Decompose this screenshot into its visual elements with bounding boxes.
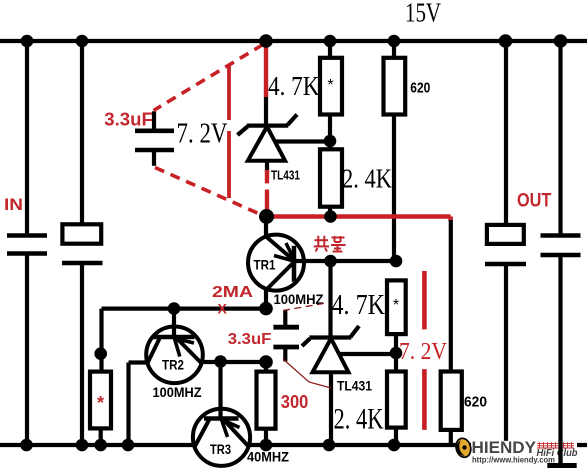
svg-text:OUT: OUT [517, 189, 551, 211]
svg-text:http://www.hiendy.com: http://www.hiendy.com [472, 455, 555, 464]
junction top rail C-in [21, 35, 34, 48]
junction bottom rail R7 [388, 439, 401, 452]
svg-text:15V: 15V [405, 0, 441, 28]
svg-text:TL431: TL431 [337, 378, 372, 394]
label R3 620 [410, 81, 430, 97]
wire top 15V rail [0, 39, 587, 43]
svg-text:*: * [97, 393, 104, 413]
label R4 4.7K [332, 289, 386, 321]
svg-text:100MHZ: 100MHZ [274, 292, 324, 307]
resistor R* left box [90, 372, 111, 429]
capacitor 3.3uF C6 top stub [283, 310, 287, 327]
wire TR1 base to R4 junction [294, 259, 396, 263]
junction top rail R1 [324, 35, 337, 48]
wire input cap C-in left vertical top [25, 41, 29, 234]
capacitor 3.3uF C6 bottom stub [283, 347, 287, 362]
red dashed vertical line 7.2V marker bottom [422, 271, 427, 430]
wire base node down to U2 TL431 [328, 261, 332, 336]
resistor R7 2.4K box [387, 372, 406, 428]
svg-text:X: X [218, 301, 228, 317]
label 15V [405, 0, 441, 28]
red dashed triangle edge bottom [155, 168, 263, 216]
junction bottom rail R5 [260, 439, 273, 452]
logo url text [472, 455, 555, 464]
junction top rail R3 [388, 35, 401, 48]
transistor TR2 internals [148, 309, 202, 364]
node dot U2 ref junction [390, 347, 403, 360]
resistor R6 620 box [441, 372, 462, 430]
resistor R4 4.7K box [387, 280, 406, 334]
zener TL431 U1 cathode lead black [264, 95, 268, 126]
label R1 4.7K [268, 71, 320, 101]
label IN [4, 195, 23, 214]
capacitor C4 plates [541, 236, 581, 256]
label TR2 [162, 357, 184, 373]
junction bottom rail R* [94, 439, 107, 452]
wire U2 anode to ground [329, 372, 333, 445]
junction bottom rail U2 anode [323, 439, 336, 452]
wire input cap C-in left vertical bottom [25, 254, 29, 446]
label TR3 40MHZ [247, 449, 289, 465]
label 共基 red (drawn strokes) [314, 236, 346, 252]
svg-text:620: 620 [410, 81, 430, 97]
node dot 2MA wire TR1 emitter [259, 302, 273, 316]
node dot reference node [259, 209, 274, 224]
transistor TR3 circle [193, 409, 250, 466]
label 3.3uF C6 red [228, 331, 272, 348]
label U2 TL431 [337, 378, 372, 394]
resistor R1 4.7K box [320, 58, 342, 115]
red wire reference node horizontal [266, 217, 451, 222]
red overlay U1 cathode [264, 44, 268, 97]
wire polarized cap C2 vertical top [80, 41, 84, 226]
label TR3 [210, 441, 231, 457]
svg-text:7. 2V: 7. 2V [177, 119, 228, 150]
svg-text:300: 300 [281, 392, 309, 412]
label 7.2V black [177, 119, 228, 150]
transistor TR3 internals [195, 362, 249, 447]
node dot base wire at 330 [324, 255, 337, 268]
label TR1 100MHZ [274, 292, 324, 307]
red overlay U1 anode [265, 170, 269, 217]
wire from red wire down to R6 620 [449, 220, 453, 372]
capacitor 3.3uF C5 bottom stub [152, 150, 156, 166]
capacitor C-in plates [7, 236, 47, 254]
label R5 300 red [281, 392, 309, 412]
wire R3 top lead [392, 41, 396, 59]
capacitor 3.3uF C5 plates [135, 131, 174, 150]
node dot TR2-TR3 [214, 355, 227, 368]
wire R3 bottom lead down to base node [392, 113, 396, 261]
label OUT [517, 189, 551, 211]
label red X over wire [218, 301, 228, 317]
wire R* bottom lead [99, 428, 103, 445]
label U1 TL431 [271, 168, 300, 183]
svg-text:HIENDY: HIENDY [472, 439, 537, 457]
node dot 2MA wire TR2 [168, 302, 181, 315]
junction bottom rail C2 [76, 439, 89, 452]
svg-text:3.3uF: 3.3uF [104, 108, 153, 129]
label TR1 [254, 257, 276, 273]
label R6 620 [464, 394, 487, 411]
wire R1 to R2 [328, 113, 332, 149]
label R2 2.4K [342, 164, 392, 194]
wire polarized cap C2 vertical bottom [80, 263, 84, 445]
svg-text:2MA: 2MA [212, 284, 254, 301]
svg-text:TL431: TL431 [271, 168, 300, 183]
logo HiFi Club text [537, 447, 579, 459]
wire R7 bottom lead [394, 428, 398, 445]
capacitor 3.3uF C6 plates [273, 327, 299, 347]
label 2MA red [212, 284, 254, 301]
junction bottom rail TR2 emitter [122, 439, 135, 452]
junction top rail C3 [499, 34, 513, 48]
red dashed triangle edge top [154, 45, 264, 111]
label R4 asterisk [393, 297, 399, 314]
logo red chinese squiggle [537, 442, 574, 448]
node dot TR2-R5 [259, 355, 273, 369]
svg-text:TR3: TR3 [210, 441, 231, 457]
logo HIENDY text [472, 439, 537, 457]
wire U1 ref to R1-R2 junction [274, 139, 330, 143]
svg-text:7. 2V: 7. 2V [399, 339, 448, 365]
node dot R* top [94, 347, 107, 360]
transistor TR1 circle [248, 235, 304, 291]
red dashed vertical line 7.2V marker top [227, 66, 231, 198]
wire R1 top lead [328, 41, 332, 59]
capacitor 3.3uF C5 top stub [152, 111, 156, 130]
junction top rail C4 [554, 34, 568, 48]
node dot R2 to red wire [324, 210, 337, 223]
capacitor C3 lower plate [485, 262, 526, 266]
wire output cap C3 vertical top [504, 41, 508, 226]
capacitor C2 lower plate [62, 261, 103, 265]
svg-text:*: * [393, 297, 399, 314]
label TR2 100MHZ [153, 384, 202, 400]
junction top rail U1 cathode [259, 34, 273, 48]
label 3.3uF C5 [104, 108, 153, 129]
wire output cap C4 vertical top [558, 41, 562, 234]
wire output cap C4 vertical bottom with end bar [547, 255, 576, 466]
logo gold ellipse [454, 437, 473, 459]
transistor TR1 internals [266, 218, 294, 309]
svg-text:4. 7K: 4. 7K [332, 289, 386, 321]
wire R6 bottom lead [449, 430, 453, 445]
wire TR2 emitter left with corner down [129, 363, 149, 446]
wire TR2 collector down to R5 300 [264, 362, 268, 372]
wire R2 bottom lead [328, 207, 332, 217]
svg-text:3.3uF: 3.3uF [228, 331, 272, 348]
resistor R5 300 box [257, 372, 276, 429]
svg-text:IN: IN [4, 195, 23, 214]
wire TR2 collector right [201, 360, 266, 364]
svg-text:*: * [327, 77, 333, 94]
wire 2MA left corner down to R* [99, 309, 103, 372]
red thin annotation near U2 [283, 359, 331, 388]
logo white backing [471, 441, 577, 456]
label 7.2V red [399, 339, 448, 365]
capacitor C3 polarized box plate [487, 225, 524, 244]
node dot U1 ref junction [324, 135, 337, 148]
wire output cap C3 vertical bottom [504, 264, 508, 445]
label R7 2.4K [334, 404, 384, 436]
label R* asterisk red [97, 393, 104, 413]
wire 2MA node horizontal [102, 307, 267, 311]
zener TL431 U1 cathode bar with tails [238, 115, 298, 136]
zener TL431 U2 cathode bar with tails [302, 326, 359, 346]
node dot base wire at 396 [390, 255, 403, 268]
resistor R3 620 box [384, 58, 406, 115]
svg-text:100MHZ: 100MHZ [153, 384, 202, 400]
svg-text:2. 4K: 2. 4K [334, 404, 384, 436]
zener TL431 U2 triangle [313, 339, 349, 373]
svg-text:4. 7K: 4. 7K [268, 71, 320, 101]
red thin annotation near C6 top [283, 303, 329, 311]
capacitor C2 polarized box plate [62, 224, 101, 243]
junction top rail C2 [76, 35, 89, 48]
wire output cap C4 vertical overlay on logo [547, 440, 576, 466]
svg-text:620: 620 [464, 394, 487, 411]
svg-text:TR1: TR1 [254, 257, 276, 273]
wire bottom ground rail [0, 443, 587, 447]
wire U2 ref to R4-R7 junction [338, 352, 396, 356]
resistor R2 2.4K box [320, 149, 342, 206]
wire U1 anode lead black stub [265, 161, 269, 172]
svg-text:2. 4K: 2. 4K [342, 164, 392, 194]
svg-text:TR2: TR2 [162, 357, 184, 373]
wire R5 bottom lead [264, 429, 268, 445]
transistor TR2 circle [146, 327, 203, 384]
junction bottom rail C-in [20, 439, 33, 452]
label R1 asterisk [327, 77, 333, 94]
wire R4 to R7 [394, 334, 398, 371]
zener TL431 U1 triangle [248, 127, 285, 161]
